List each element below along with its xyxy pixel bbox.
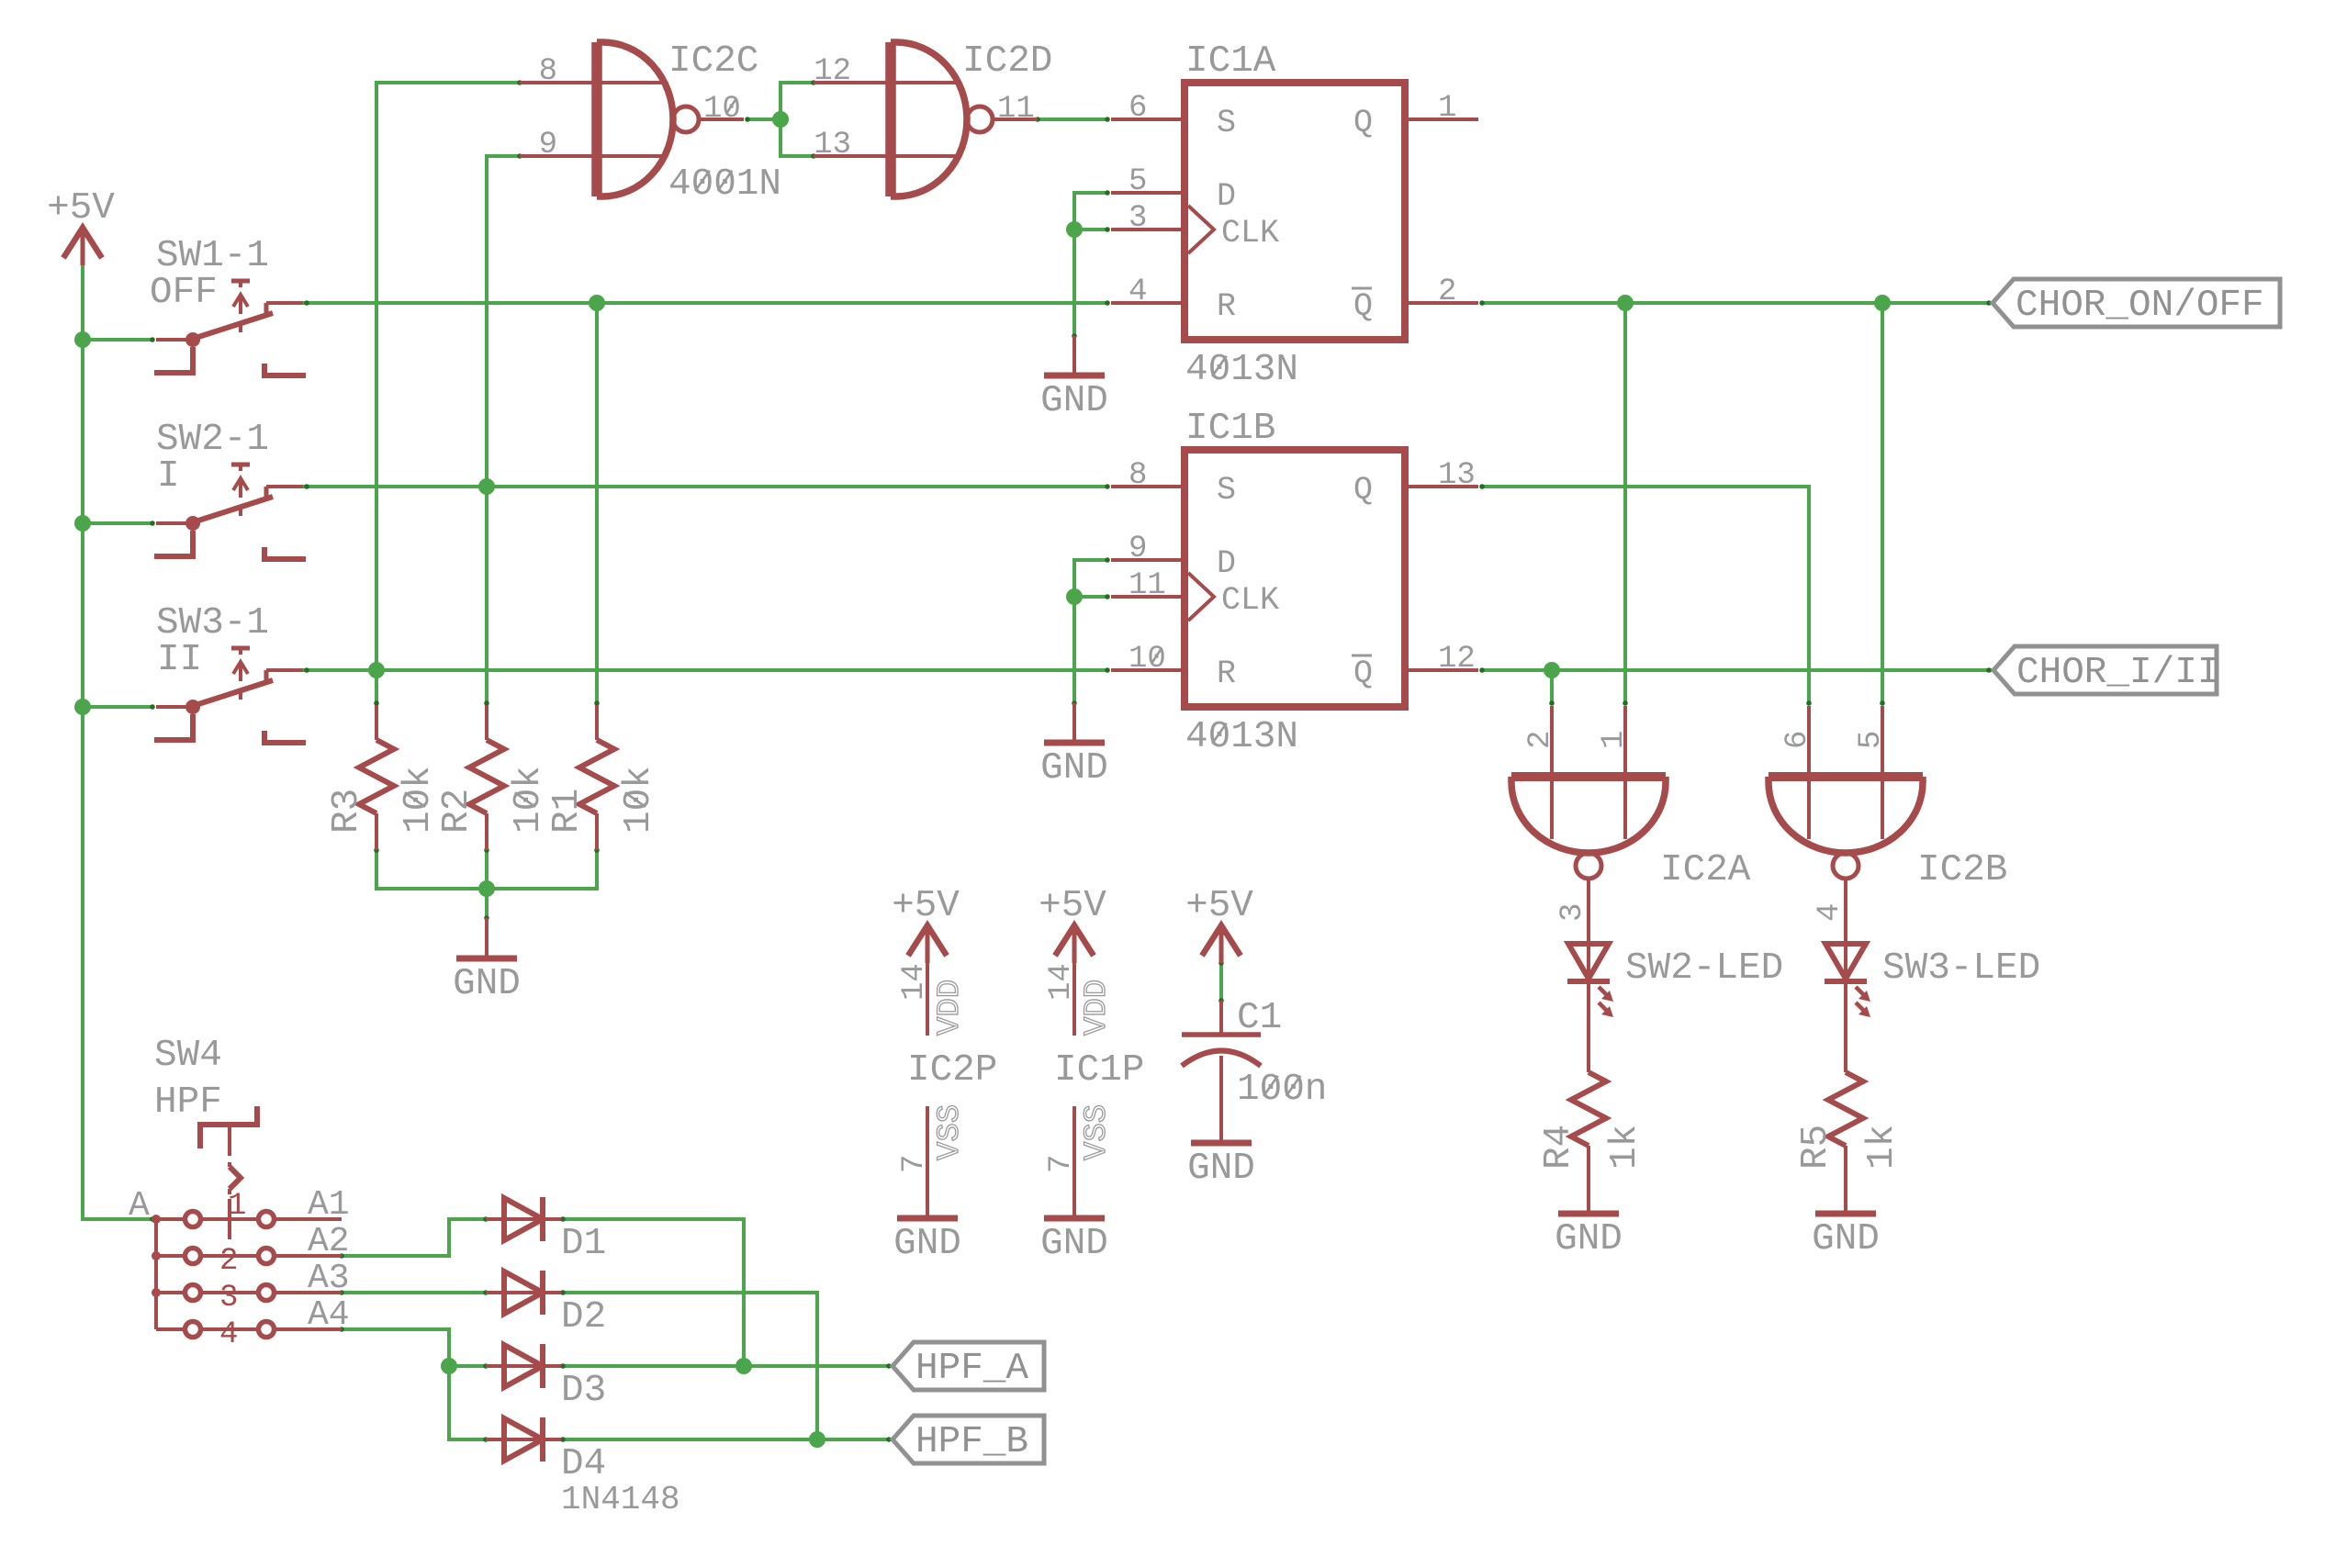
power pin VDD 14 of IC2P	[926, 963, 929, 1036]
switch SW4 contact row 4 pole line	[200, 1327, 259, 1331]
switch SW4 contact row 4 left circle	[156, 1327, 185, 1331]
node A4/D3/D4 junction	[441, 1358, 457, 1374]
flip-flop IC1A pin S 6	[1111, 118, 1185, 121]
node +5V/SW3 junction	[74, 699, 91, 715]
power +5V above C1	[1202, 925, 1241, 956]
svg-text:12: 12	[1438, 642, 1476, 677]
svg-text:D: D	[1217, 545, 1236, 582]
wire C1 to +5V	[1219, 963, 1223, 1001]
nor-gate IC2B output pin 4	[1844, 879, 1847, 944]
svg-text:HPF: HPF	[154, 1081, 222, 1124]
flip-flop IC1A pin Qbar 2	[1405, 301, 1478, 305]
node resistor-bus junction	[478, 880, 495, 897]
wire net HPF_B (D4 cathode to flag)	[561, 1438, 892, 1441]
svg-text:OFF: OFF	[150, 272, 218, 314]
svg-text:+5V: +5V	[1185, 885, 1253, 927]
switch SW3-1 throw contact	[264, 670, 269, 683]
svg-text:5: 5	[1854, 731, 1889, 749]
switch SW4 pin A4	[274, 1327, 342, 1331]
wire resistor bus to GND	[485, 889, 488, 918]
flip-flop IC1A clk wedge	[1188, 206, 1214, 253]
ground GND IC1A reset loop	[1072, 336, 1076, 375]
svg-text:2: 2	[1523, 731, 1558, 749]
svg-text:D2: D2	[561, 1296, 606, 1338]
svg-text:IC2B: IC2B	[1917, 849, 2007, 891]
wire SW4 A3 to D2 anode	[342, 1291, 486, 1294]
svg-text:A4: A4	[308, 1295, 350, 1335]
wire to IC2D pin 12	[780, 81, 814, 84]
svg-text:4013N: 4013N	[1185, 716, 1298, 758]
svg-text:10: 10	[1129, 642, 1166, 677]
diode D3 cathode pin	[543, 1364, 561, 1368]
svg-text:HPF_B: HPF_B	[915, 1421, 1028, 1463]
switch SW4 contact row 3 left circle	[156, 1291, 185, 1294]
wire D1 cathode to HPF_A	[561, 1219, 744, 1366]
switch SW2-1 actuator	[231, 463, 250, 467]
svg-text:Q: Q	[1353, 288, 1373, 325]
svg-text:R1: R1	[546, 789, 589, 834]
svg-text:2: 2	[1438, 274, 1456, 309]
wire IC1A CLK stub	[1074, 228, 1107, 231]
nor-gate IC2B input pin 6	[1807, 706, 1811, 839]
resistor R1 body	[595, 705, 599, 740]
diode D2 anode pin	[486, 1291, 543, 1294]
node IC2C-out junction	[772, 111, 789, 128]
nor-gate IC2A input pin 2	[1550, 706, 1554, 839]
node SW1-out/R1 junction	[589, 295, 605, 311]
svg-text:1k: 1k	[1861, 1125, 1903, 1170]
wire IC1B CLK stub	[1074, 595, 1107, 599]
node +5V/SW1 junction	[74, 331, 91, 348]
switch SW2-1 pole pin	[156, 521, 189, 525]
power pin VDD 14 of IC1P	[1072, 963, 1076, 1036]
svg-text:SW3-LED: SW3-LED	[1882, 947, 2040, 990]
switch SW2-1 pole dot	[185, 516, 200, 531]
capacitor C1 plates	[1182, 1032, 1261, 1037]
switch SW3-1 pole bracket	[154, 714, 193, 740]
flip-flop IC1B pin Q 13	[1405, 485, 1478, 488]
switch SW4 contact row 1 right circle	[259, 1212, 275, 1227]
svg-text:VDD: VDD	[1080, 980, 1115, 1036]
svg-text:S: S	[1217, 472, 1236, 509]
switch SW4 bus dot 2	[152, 1251, 161, 1260]
wire R3 column to IC2C pin 8	[376, 83, 520, 703]
ground GND under R5	[1844, 1184, 1847, 1214]
flip-flop IC1A pin R 4	[1111, 301, 1185, 305]
node CHOR_ON/OFF to IC2A pin1	[1617, 295, 1634, 311]
svg-text:5: 5	[1129, 164, 1147, 199]
switch SW3-1 pole dot	[185, 700, 200, 714]
svg-text:14: 14	[897, 963, 932, 1001]
node HPF_A/D1 junction	[736, 1358, 752, 1374]
power +5V above IC2P	[908, 925, 947, 956]
svg-text:GND: GND	[1040, 380, 1108, 422]
switch SW4 contact row 2 left circle	[156, 1254, 185, 1258]
svg-text:D: D	[1217, 178, 1236, 215]
switch SW4 contact row 2 right circle	[259, 1249, 275, 1264]
nor-gate IC2D input pin 13	[814, 154, 957, 158]
net flag HPF_B	[893, 1416, 1044, 1463]
nor-gate IC2B bubble	[1833, 853, 1859, 879]
resistor R3 body	[375, 705, 378, 740]
diode D4 anode pin	[486, 1438, 543, 1441]
diode D1 cathode pin	[543, 1217, 561, 1221]
diode D4 cathode pin	[543, 1438, 561, 1441]
flip-flop IC1A pin D 5	[1111, 191, 1185, 195]
wire +5V rail vertical	[81, 265, 84, 1221]
svg-text:13: 13	[1438, 458, 1476, 493]
flip-flop IC1B body	[1185, 450, 1405, 707]
svg-text:100n: 100n	[1237, 1069, 1327, 1111]
wire to D4 anode	[449, 1366, 486, 1439]
ground GND resistor bus	[485, 918, 488, 958]
svg-text:4001N: 4001N	[668, 163, 781, 206]
svg-text:IC1A: IC1A	[1185, 40, 1276, 83]
wire IC1B Q pin13 to IC2B pin6	[1482, 487, 1809, 703]
wire net SW1-out (SW1 to IC1A R pin 4)	[303, 301, 1107, 305]
diode D2 cathode pin	[543, 1291, 561, 1294]
svg-text:1: 1	[1438, 91, 1456, 126]
diode D3 body	[504, 1345, 543, 1387]
switch SW2-1 pole bracket	[154, 531, 193, 556]
wire to D3 anode	[449, 1364, 486, 1368]
switch SW1-1 lever	[196, 313, 273, 338]
flip-flop IC1B pin R 10	[1111, 668, 1185, 672]
svg-text:10: 10	[703, 92, 741, 127]
switch SW4 bus dot 3	[152, 1288, 161, 1297]
nor-gate IC2A bubble	[1576, 853, 1601, 879]
svg-text:1: 1	[1597, 731, 1632, 749]
diode D1 anode pin	[486, 1217, 543, 1221]
svg-text:R: R	[1217, 655, 1236, 692]
net flag CHOR_I/II	[1993, 646, 2217, 694]
capacitor C1 bottom pin	[1219, 1056, 1223, 1143]
svg-text:9: 9	[1129, 532, 1147, 566]
wire net CHOR_I/II (IC1B pin 12 to flag)	[1482, 668, 1992, 672]
svg-text:GND: GND	[1812, 1218, 1880, 1260]
svg-text:Q: Q	[1353, 655, 1373, 692]
capacitor C1 top pin	[1219, 1001, 1223, 1035]
diode D1 body	[504, 1198, 543, 1240]
svg-text:A1: A1	[308, 1185, 350, 1225]
flip-flop IC1A pin CLK 3	[1111, 228, 1185, 231]
wire net HPF_A (D3 cathode to flag)	[561, 1364, 892, 1368]
svg-text:10k: 10k	[618, 766, 660, 834]
switch SW4 actuator arrow	[228, 1162, 231, 1167]
svg-text:13: 13	[814, 128, 851, 162]
svg-text:1k: 1k	[1604, 1125, 1646, 1170]
nor-gate IC2B body	[1769, 772, 1923, 781]
svg-text:14: 14	[1044, 963, 1079, 1001]
nor-gate IC2A input pin 1	[1623, 706, 1627, 839]
switch SW2-1 throw bracket	[264, 547, 306, 559]
ground GND IC1B reset loop	[1072, 703, 1076, 743]
svg-text:1N4148: 1N4148	[561, 1481, 680, 1518]
nor-gate IC2B input pin 5	[1881, 706, 1884, 839]
power pin VSS 7 of IC1P	[1072, 1106, 1076, 1218]
svg-text:1: 1	[228, 1189, 246, 1224]
svg-text:IC1P: IC1P	[1054, 1049, 1144, 1092]
svg-text:GND: GND	[893, 1223, 961, 1265]
switch SW4 actuator bracket	[200, 1106, 257, 1148]
flip-flop IC1B pin CLK 11	[1111, 595, 1185, 599]
svg-text:GND: GND	[1040, 747, 1108, 790]
flip-flop IC1B clk wedge	[1188, 573, 1214, 621]
diode D2 body	[504, 1271, 543, 1314]
svg-text:10k: 10k	[508, 766, 550, 834]
svg-text:7: 7	[1044, 1155, 1079, 1173]
wire net SW3-out (SW3 to IC1B R pin 10)	[303, 668, 1107, 672]
svg-text:SW4: SW4	[154, 1035, 222, 1077]
wire to IC2D pin 13	[780, 119, 814, 156]
svg-text:R: R	[1217, 288, 1236, 325]
node IC1A D/CLK junction	[1066, 221, 1083, 238]
svg-text:II: II	[157, 639, 202, 681]
svg-text:IC2D: IC2D	[962, 40, 1052, 83]
svg-text:D1: D1	[561, 1223, 606, 1265]
LED SW3-LED emission arrows	[1856, 987, 1864, 995]
svg-text:GND: GND	[453, 963, 521, 1005]
switch SW1-1 pole pin	[156, 338, 189, 342]
svg-text:VSS: VSS	[933, 1104, 968, 1160]
wire SW4 A2 to D1 anode	[342, 1219, 486, 1256]
svg-text:+5V: +5V	[892, 885, 960, 927]
switch SW3-1 actuator	[231, 646, 250, 651]
node SW2-out/R2 junction	[478, 478, 495, 495]
diode D4 body	[504, 1418, 543, 1461]
wire R2 column to IC2C pin 9	[487, 156, 520, 703]
svg-text:SW2-LED: SW2-LED	[1625, 947, 1783, 990]
wire +5V rail to SW4 common A	[83, 1217, 152, 1221]
svg-text:C1: C1	[1237, 997, 1282, 1039]
svg-text:11: 11	[997, 92, 1035, 127]
net flag CHOR_ON/OFF	[1993, 279, 2280, 327]
wire net SW2-out (SW2 to IC1B S pin 8)	[303, 485, 1107, 488]
svg-text:R5: R5	[1795, 1125, 1837, 1170]
svg-text:CHOR_ON/OFF: CHOR_ON/OFF	[2016, 285, 2264, 327]
svg-text:D3: D3	[561, 1370, 606, 1412]
switch SW3-1 lever	[196, 680, 273, 705]
svg-text:4: 4	[219, 1317, 238, 1352]
LED SW2-LED body	[1568, 944, 1609, 979]
svg-text:3: 3	[219, 1281, 238, 1316]
switch SW4 common pin A	[156, 1217, 185, 1221]
svg-text:IC1B: IC1B	[1185, 408, 1275, 450]
nor-gate IC2A body	[1511, 772, 1666, 781]
wire +5V to SW1 pole	[83, 338, 152, 342]
svg-text:4: 4	[1129, 274, 1147, 309]
svg-text:VSS: VSS	[1080, 1104, 1115, 1160]
wire +5V to SW3 pole	[83, 705, 152, 709]
nor-gate IC2D output pin 11	[993, 118, 1038, 121]
nor-gate IC2D input pin 12	[814, 81, 957, 84]
switch SW4 bus dot 1	[152, 1215, 161, 1224]
node SW3-out/R3 junction	[368, 662, 385, 678]
svg-text:9: 9	[539, 128, 557, 162]
wire +5V to SW2 pole	[83, 521, 152, 525]
nor-gate IC2C output pin 10	[699, 118, 744, 121]
wire IC2A pin2 drop	[1550, 670, 1554, 703]
svg-text:CLK: CLK	[1221, 582, 1279, 619]
svg-text:GND: GND	[1040, 1223, 1108, 1265]
net flag HPF_A	[893, 1342, 1044, 1390]
svg-text:R3: R3	[326, 789, 368, 834]
svg-text:+5V: +5V	[1039, 885, 1106, 927]
ground GND under R4	[1587, 1184, 1590, 1214]
power pin VSS 7 of IC2P	[926, 1106, 929, 1218]
wire IC2C out to IC2D inputs	[747, 118, 780, 121]
switch SW4 contact row 4 right circle	[259, 1322, 275, 1338]
svg-text:Q: Q	[1353, 472, 1373, 509]
resistor R2 body	[485, 705, 488, 740]
node HPF_B/D2 junction	[809, 1431, 825, 1448]
svg-text:R2: R2	[436, 789, 478, 834]
svg-text:4013N: 4013N	[1185, 349, 1298, 391]
svg-text:7: 7	[897, 1155, 932, 1173]
wire IC1A D loop	[1074, 193, 1107, 336]
nor-gate IC2C input pin 9	[520, 154, 663, 158]
node CHOR_ON/OFF to IC2B pin5	[1874, 295, 1891, 311]
svg-text:12: 12	[814, 54, 851, 89]
svg-text:CLK: CLK	[1221, 215, 1279, 252]
flip-flop IC1B pin Qbar 12	[1405, 668, 1478, 672]
wire IC2A pin1 drop	[1623, 303, 1627, 703]
svg-text:A3: A3	[308, 1259, 350, 1298]
svg-text:GND: GND	[1555, 1218, 1623, 1260]
svg-text:S: S	[1217, 105, 1236, 141]
wire net CHOR_ON/OFF (IC1A pin 2 to flag)	[1482, 301, 1992, 305]
flip-flop IC1A body	[1185, 83, 1405, 340]
svg-text:GND: GND	[1187, 1148, 1255, 1190]
nor-gate IC2D body	[885, 42, 896, 196]
svg-text:8: 8	[539, 54, 557, 89]
switch SW4 pin A2	[274, 1254, 342, 1258]
svg-text:Q: Q	[1353, 105, 1373, 141]
svg-text:R4: R4	[1538, 1125, 1580, 1170]
svg-text:IC2A: IC2A	[1660, 849, 1751, 891]
svg-text:2: 2	[219, 1244, 238, 1279]
switch SW1-1 throw contact	[264, 303, 269, 316]
switch SW4 contact row 3 right circle	[259, 1285, 275, 1301]
wire R2 bottom	[485, 850, 488, 889]
node IC1B D/CLK junction	[1066, 588, 1083, 605]
ground GND under IC2P	[897, 1215, 958, 1222]
svg-text:CHOR_I/II: CHOR_I/II	[2016, 652, 2219, 694]
switch SW4 common bus	[154, 1219, 158, 1329]
LED SW2-LED emission arrows	[1599, 987, 1607, 995]
node +5V/SW2 junction	[74, 515, 91, 532]
resistor R5 body	[1828, 1072, 1863, 1146]
wire resistor bottoms bus	[376, 850, 597, 889]
flip-flop IC1B pin S 8	[1111, 485, 1185, 488]
svg-text:+5V: +5V	[47, 187, 115, 230]
wire D2 cathode to HPF_B	[561, 1293, 817, 1439]
power +5V supply (top left)	[63, 228, 102, 258]
svg-text:VDD: VDD	[933, 980, 968, 1036]
ground GND under IC1P	[1044, 1215, 1105, 1222]
wire SW4 A4 drop	[342, 1329, 449, 1366]
svg-text:3: 3	[1555, 903, 1590, 922]
ground GND under C1	[1191, 1140, 1252, 1147]
svg-text:8: 8	[1129, 458, 1147, 493]
wire IC1B D loop	[1074, 560, 1107, 703]
switch SW4 contact row 3 pole line	[200, 1291, 259, 1294]
switch SW4 pin A1	[274, 1217, 342, 1221]
node CHOR_I/II to IC2A pin2	[1544, 662, 1560, 678]
switch SW1-1 actuator	[231, 279, 250, 284]
LED SW3-LED body	[1825, 944, 1866, 979]
resistor R4 body	[1571, 1072, 1606, 1146]
switch SW1-1 throw bracket	[264, 364, 306, 375]
switch SW4 contact row 1 left circle	[156, 1217, 185, 1221]
svg-text:11: 11	[1129, 568, 1166, 603]
wire IC2B pin5 drop	[1881, 303, 1884, 703]
nor-gate IC2A output pin 3	[1587, 879, 1590, 944]
switch SW1-1 pole dot	[185, 332, 200, 347]
svg-text:IC2P: IC2P	[907, 1049, 997, 1092]
switch SW2-1 lever	[196, 497, 273, 521]
svg-text:6: 6	[1780, 731, 1815, 749]
nor-gate IC2D bubble	[967, 106, 993, 132]
switch SW4 pin A3	[274, 1291, 342, 1294]
svg-text:3: 3	[1129, 201, 1147, 236]
switch SW3-1 pole pin	[156, 705, 189, 709]
flip-flop IC1B pin D 9	[1111, 558, 1185, 562]
svg-text:A: A	[129, 1186, 150, 1226]
switch SW2-1 throw contact	[264, 487, 269, 499]
switch SW1-1 pole bracket	[154, 347, 193, 373]
nor-gate IC2C input pin 8	[520, 81, 663, 84]
svg-text:10k: 10k	[398, 766, 440, 834]
diode D3 anode pin	[486, 1364, 543, 1368]
power +5V above IC1P	[1055, 925, 1094, 956]
svg-text:IC2C: IC2C	[668, 40, 758, 83]
svg-text:A2: A2	[308, 1222, 350, 1261]
flip-flop IC1A pin Q 1	[1405, 118, 1478, 121]
svg-text:I: I	[157, 455, 180, 498]
svg-text:6: 6	[1129, 91, 1147, 126]
svg-text:D4: D4	[561, 1443, 606, 1485]
switch SW4 contact row 1 pole line	[200, 1217, 259, 1221]
switch SW4 wiper bar	[228, 1199, 231, 1239]
nor-gate IC2C bubble	[673, 106, 699, 132]
wire R1 column	[595, 303, 599, 703]
svg-text:4: 4	[1813, 903, 1847, 922]
switch SW3-1 throw bracket	[264, 731, 306, 743]
nor-gate IC2C body	[591, 42, 602, 196]
wire IC2D out to IC1A S pin 6	[1038, 118, 1107, 121]
switch SW4 contact row 2 pole line	[200, 1254, 259, 1258]
svg-text:HPF_A: HPF_A	[915, 1348, 1028, 1390]
